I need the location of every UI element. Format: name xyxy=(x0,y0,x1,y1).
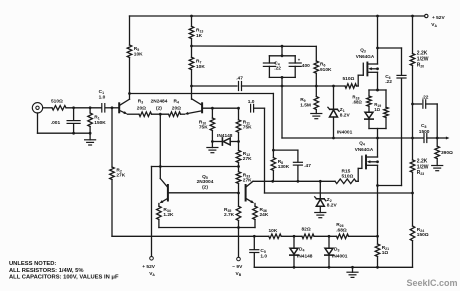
wire R10 top lead xyxy=(211,108,213,118)
junction Q5 bases xyxy=(237,192,240,195)
wire Z1 to bias line xyxy=(333,117,335,138)
connector input jack xyxy=(32,103,42,113)
junction C4 block to bus xyxy=(281,85,284,88)
terminal -9V VB xyxy=(237,257,241,261)
wire R24 to bottom rail xyxy=(412,241,414,268)
svg-text:− 9V: − 9V xyxy=(232,264,243,270)
label R19 1 ohm xyxy=(374,102,381,112)
wire emitter return rail xyxy=(159,227,255,229)
junction -9V drop xyxy=(237,226,240,229)
junction .22 out xyxy=(411,103,414,106)
wire C6 branch top xyxy=(378,47,402,49)
label R34 1.2K xyxy=(163,207,174,218)
label Q4 xyxy=(359,141,365,147)
label R1 150K xyxy=(94,115,106,126)
junction R1 xyxy=(89,106,92,109)
wire C4 block top xyxy=(269,55,295,57)
wire C1 to Q1 base xyxy=(105,107,118,109)
wire feedback riser xyxy=(264,108,266,193)
diode D3 xyxy=(325,248,333,255)
wire feedback line xyxy=(265,192,413,194)
wire R15 to gate riser xyxy=(356,180,358,182)
wire Q5a collector xyxy=(159,167,161,179)
resistor 510 ohm input xyxy=(52,106,66,111)
junction .47 bottom xyxy=(297,180,300,183)
wire 390 to ground xyxy=(436,159,438,166)
wire R7 top lead xyxy=(191,46,193,57)
wire R12 top lead xyxy=(238,142,240,151)
terminal +52V VA bottom xyxy=(150,257,154,261)
svg-text:.001: .001 xyxy=(51,120,61,126)
junction Z1 top xyxy=(332,85,335,88)
wire D3 bottom lead xyxy=(328,255,330,267)
label 510 input xyxy=(51,98,63,104)
junction D4 top xyxy=(293,235,296,238)
label .22 output xyxy=(422,94,429,100)
label VA bottom xyxy=(149,271,155,277)
svg-text:ALL RESISTORS: 1/4W, 5%: ALL RESISTORS: 1/4W, 5% xyxy=(9,268,84,274)
label R23 2.2K xyxy=(417,159,429,177)
resistor R20 xyxy=(410,54,415,66)
wire Q2 base xyxy=(203,107,239,109)
svg-text:75K: 75K xyxy=(243,125,252,131)
wire R21 bottom lead xyxy=(377,257,379,268)
junction .001 ground xyxy=(72,132,75,135)
svg-text:400: 400 xyxy=(302,63,310,69)
wire .001 bottom lead xyxy=(73,124,75,134)
label 510 ohm gate xyxy=(343,76,355,82)
junction C6 branch xyxy=(376,47,379,50)
label R24 150 xyxy=(417,227,429,238)
wire R4 to Q2 emitter xyxy=(181,113,185,115)
wire R11 bottom lead xyxy=(238,132,240,141)
junction output node xyxy=(436,137,439,140)
svg-text:.47: .47 xyxy=(304,163,311,169)
label IN4148 D4 xyxy=(297,253,313,259)
label R6 910K xyxy=(320,62,332,74)
wire C4 lower lead xyxy=(268,66,270,77)
resistor R34 xyxy=(157,206,162,219)
label R5 10K xyxy=(134,46,143,58)
wire -9V drop xyxy=(238,228,240,258)
label 2N3004 xyxy=(197,179,214,185)
resistor R2 xyxy=(110,167,115,180)
svg-text:510Ω: 510Ω xyxy=(51,98,63,104)
wire C6 bottom lead xyxy=(401,78,403,185)
wire R6 top lead xyxy=(315,46,317,61)
label 390 ohm xyxy=(441,150,453,156)
label C6 .22 xyxy=(385,74,392,85)
label Z1 8.2V xyxy=(340,107,351,119)
wire R35 bottom lead xyxy=(238,221,240,228)
wire Q5 collector line xyxy=(253,180,335,182)
resistor R10 xyxy=(210,118,215,131)
svg-text:.22: .22 xyxy=(385,79,392,85)
resistor R18 xyxy=(367,96,372,106)
transistor Q2 2N2484 xyxy=(185,86,202,115)
junction R8 top xyxy=(272,149,275,152)
capacitor C5 xyxy=(250,250,259,253)
svg-text:510Ω: 510Ω xyxy=(342,173,354,179)
wire Z2 to ground xyxy=(319,206,321,212)
label (2) Q5 xyxy=(202,185,208,191)
wire C4 upper lead xyxy=(268,56,270,63)
capacitor .47 top xyxy=(239,82,242,91)
wire R13 top lead xyxy=(191,16,193,26)
label Z2 8.2V xyxy=(327,197,338,209)
wire 390 top lead xyxy=(436,138,438,146)
label R4 xyxy=(174,98,179,104)
svg-text:2N3004: 2N3004 xyxy=(197,179,214,185)
resistor R4 xyxy=(169,112,181,117)
svg-text:1Ω: 1Ω xyxy=(374,107,380,112)
label +52V top xyxy=(432,15,445,21)
wire gate riser Q3 xyxy=(357,75,359,86)
wire C6 bottom branch xyxy=(378,185,402,187)
wire diode to block bottom xyxy=(368,119,370,128)
wire +52V drop xyxy=(151,167,153,257)
wire R20 top lead xyxy=(412,16,414,54)
capacitor C4 .22 xyxy=(263,63,275,66)
svg-text:.68Ω: .68Ω xyxy=(336,227,347,233)
wire R18 top lead xyxy=(368,90,370,96)
transistor Q1 2N2484 xyxy=(119,94,129,115)
diode IN4148 xyxy=(222,138,230,145)
junction output column C8 xyxy=(411,137,414,140)
wire R21 top lead xyxy=(377,236,379,244)
svg-text:2.7K: 2.7K xyxy=(224,212,235,218)
watermark SeekIC.com xyxy=(407,278,458,288)
label R35 2.7K xyxy=(224,207,235,218)
junction R11 top xyxy=(237,107,240,110)
junction block top xyxy=(376,89,379,92)
wire block bottom xyxy=(369,128,386,130)
label VN64GA Q4 xyxy=(355,147,374,152)
junction emitters to Q5a xyxy=(159,165,162,168)
ground bottom rail xyxy=(347,272,358,277)
wire D3 top lead xyxy=(328,236,330,248)
wire R26 to R21 xyxy=(349,235,378,237)
svg-text:910K: 910K xyxy=(320,67,332,73)
svg-text:VN64GA: VN64GA xyxy=(355,147,374,152)
node Q1 collector xyxy=(128,92,131,95)
capacitor C1 xyxy=(102,104,105,112)
wire R19 top lead xyxy=(385,90,387,107)
svg-text:IN4148: IN4148 xyxy=(217,133,233,139)
resistor 10K xyxy=(269,234,281,239)
wire Q1 emitter to R3 xyxy=(127,113,139,115)
wire to diff ground xyxy=(211,142,213,148)
transistor Q5b 2N3004 xyxy=(246,181,255,203)
junction C6 return xyxy=(376,184,379,187)
wire Q5 base line xyxy=(169,192,239,194)
svg-text:IN4148: IN4148 xyxy=(297,253,313,259)
junction C4 block top xyxy=(281,45,284,48)
label 20 ohm right xyxy=(172,105,181,111)
wire R5 top lead xyxy=(129,16,131,45)
wire R18 to diode xyxy=(368,106,370,112)
label R33 27K xyxy=(243,173,252,184)
wire jack to 510 xyxy=(43,107,52,109)
svg-text:SeekIC.com: SeekIC.com xyxy=(407,278,458,288)
ground output xyxy=(432,166,443,171)
junction rail Q3 drain xyxy=(376,15,379,18)
resistor R9 xyxy=(314,97,319,110)
wire R9 top lead xyxy=(315,86,317,97)
wire Z1 top lead xyxy=(333,86,335,109)
node R13 R7 xyxy=(190,45,193,48)
output arrow xyxy=(437,137,449,140)
svg-text:1Ω: 1Ω xyxy=(382,250,389,256)
wire bias rail left xyxy=(112,235,269,237)
wire to gate bar Q3 xyxy=(358,74,363,76)
junction .001 cap xyxy=(72,106,75,109)
label VN64GA Q3 xyxy=(356,54,375,59)
junction Z2 top xyxy=(319,180,322,183)
label R8 130K xyxy=(278,159,290,170)
wire R34 bottom lead xyxy=(158,220,160,228)
capacitor 400uF xyxy=(289,63,301,66)
svg-text:1.0: 1.0 xyxy=(248,99,255,105)
wire R9 to ground xyxy=(315,110,317,114)
junction R10 top xyxy=(211,107,214,110)
capacitor .001 xyxy=(67,121,80,124)
label C5 1.0 xyxy=(260,248,267,259)
label 10K xyxy=(269,228,278,234)
wire Q4 source down xyxy=(377,165,379,236)
svg-text:+ 52V: + 52V xyxy=(432,15,445,21)
wire R8 top lead xyxy=(272,150,274,158)
svg-text:1.5M: 1.5M xyxy=(300,103,311,109)
label 20 ohm left xyxy=(137,105,146,111)
resistor R5 xyxy=(127,45,132,58)
wire IN4148 to R11 xyxy=(230,141,238,143)
svg-text:2N2484: 2N2484 xyxy=(151,98,168,104)
wire R10 bottom lead xyxy=(211,131,213,142)
wire .001 top lead xyxy=(73,108,75,121)
svg-text:1.0: 1.0 xyxy=(260,253,267,259)
transistor Q4 VN64GA xyxy=(362,156,378,169)
resistor 82 ohm xyxy=(302,234,314,239)
ground R9 xyxy=(311,114,322,119)
wire 510 to C1 xyxy=(66,107,101,109)
svg-text:IN4001: IN4001 xyxy=(332,253,348,259)
svg-text:.22: .22 xyxy=(274,65,281,71)
wire current source rail xyxy=(152,166,239,168)
wire Q5b emitter to R36 xyxy=(254,204,256,207)
svg-text:UNLESS NOTED:: UNLESS NOTED: xyxy=(9,261,56,267)
svg-text:(2): (2) xyxy=(156,105,162,111)
wire C5 bottom lead xyxy=(253,253,255,267)
label 2N2484 xyxy=(151,98,168,104)
resistor R26 .68 xyxy=(337,234,349,239)
svg-text:.22: .22 xyxy=(422,94,429,100)
wire 400uF upper lead xyxy=(294,56,296,63)
capacitor .47 mid xyxy=(293,162,302,165)
svg-text:8.2V: 8.2V xyxy=(340,113,351,119)
wire C4 block bottom xyxy=(269,76,295,78)
label +52V bottom xyxy=(142,264,155,270)
wire .47 mid bottom lead xyxy=(297,165,299,181)
transistor Q3 VN64GA xyxy=(363,63,377,76)
svg-text:150Ω: 150Ω xyxy=(417,232,429,238)
node diff emitters xyxy=(159,113,162,116)
wire block bottom tap xyxy=(377,129,379,139)
resistor 390 ohm xyxy=(435,146,440,158)
svg-text:1.0: 1.0 xyxy=(99,94,106,100)
wire R11 top lead xyxy=(238,108,240,120)
svg-text:1K: 1K xyxy=(196,33,203,39)
label 82 ohm xyxy=(302,227,311,233)
svg-text:20Ω: 20Ω xyxy=(172,105,181,111)
wire R33 top lead xyxy=(238,167,240,172)
label D3 xyxy=(334,247,339,253)
label 400 xyxy=(302,63,310,69)
svg-text:130K: 130K xyxy=(278,164,290,170)
wire diff emitters down xyxy=(159,114,161,166)
resistor R19 xyxy=(384,107,389,117)
label C8 xyxy=(421,123,426,129)
wire R2 top lead xyxy=(111,108,113,167)
label R15 510 xyxy=(342,168,354,179)
label R11 75K xyxy=(243,120,252,131)
wire node to R6 xyxy=(192,45,317,47)
wire Q4 gate riser xyxy=(357,168,359,181)
resistor R11 xyxy=(236,120,241,133)
resistor R15 xyxy=(335,179,356,184)
wire C4 block bottom tap xyxy=(281,77,283,86)
svg-text:ALL CAPACITORS: 100V, VALUES: ALL CAPACITORS: 100V, VALUES IN μF xyxy=(9,274,119,280)
svg-text:8.2V: 8.2V xyxy=(327,202,338,208)
svg-text:IN4001: IN4001 xyxy=(337,130,353,136)
resistor 510 ohm gate Q3 xyxy=(345,84,357,89)
resistor R21 xyxy=(375,244,380,257)
wire 510 to gate riser xyxy=(357,85,359,87)
wire to IN4148 xyxy=(212,141,221,143)
wire C8 node to R23 xyxy=(412,138,414,160)
node R7 bottom xyxy=(190,85,193,88)
svg-text:VN64GA: VN64GA xyxy=(356,54,375,59)
ground diff pair xyxy=(207,148,218,153)
wire to .22 out xyxy=(413,103,422,105)
label 1500 xyxy=(419,129,430,135)
junction bottom ground xyxy=(351,266,354,269)
resistor R8 xyxy=(271,158,276,171)
label IN4001 xyxy=(337,130,353,136)
label R7 10K xyxy=(196,59,205,71)
wire block top xyxy=(369,89,386,91)
wire R23 to feedback node xyxy=(412,172,414,193)
label R13 1K xyxy=(196,28,203,40)
wire +52V top rail xyxy=(130,15,425,17)
junction D3 top xyxy=(328,235,331,238)
wire R1 top lead xyxy=(89,108,91,113)
resistor R35 xyxy=(236,206,241,220)
label .001 xyxy=(51,120,61,126)
wire C5 top lead xyxy=(253,236,255,249)
wire Q1 collector to R8 column xyxy=(130,93,274,95)
wire Q3 source xyxy=(377,72,379,90)
wire 10K to 82 xyxy=(281,235,302,237)
wire .22 down to output xyxy=(436,104,438,138)
zener Z1 xyxy=(328,107,339,117)
wire C6 top lead xyxy=(401,48,403,75)
label .47 mid xyxy=(304,163,311,169)
wire ground bus input xyxy=(38,132,91,134)
junction rail R13 xyxy=(190,15,193,18)
resistor R7 xyxy=(189,57,194,69)
resistor R13 xyxy=(189,26,194,38)
wire 400uF lower lead xyxy=(294,66,296,77)
label IN4148 xyxy=(217,133,233,139)
wire to C8 xyxy=(413,137,424,139)
svg-text:.47: .47 xyxy=(236,75,243,81)
label R26 .68 xyxy=(336,222,347,233)
wire Q5a emitter to R34 xyxy=(158,204,160,207)
junction D3 bottom xyxy=(328,266,331,269)
junction Z1 chain bias line xyxy=(332,137,335,140)
junction R21 bottom xyxy=(376,266,379,269)
label VA top xyxy=(431,22,437,28)
wire R3 to R4 xyxy=(152,113,169,115)
label (2) diff xyxy=(156,105,162,111)
junction R12 R33 xyxy=(237,165,240,168)
svg-text:.68Ω: .68Ω xyxy=(352,100,362,105)
junction R8 bottom xyxy=(271,180,274,183)
junction R6 R9 xyxy=(315,85,318,88)
svg-text:390Ω: 390Ω xyxy=(441,150,453,156)
junction Q4 drain node xyxy=(376,137,379,140)
junction rail R20 xyxy=(411,15,414,18)
wire R35 top lead xyxy=(238,193,240,206)
svg-text:20Ω: 20Ω xyxy=(137,105,146,111)
wire down to R8 xyxy=(272,94,274,151)
wire R2 bottom lead xyxy=(111,180,113,237)
svg-text:510Ω: 510Ω xyxy=(343,76,355,82)
svg-text:24K: 24K xyxy=(260,212,269,218)
wire bottom rail xyxy=(254,266,412,268)
svg-text:150K: 150K xyxy=(94,120,106,126)
wire R8 bottom lead xyxy=(272,170,274,181)
diode D4 xyxy=(290,248,298,255)
label C1 1.0 xyxy=(99,89,106,100)
junction R2 base xyxy=(111,106,114,109)
resistor R24 xyxy=(410,226,415,241)
wire .47 to 510 ohm xyxy=(242,85,346,87)
junction C5 xyxy=(253,235,256,238)
junction feedback output column xyxy=(411,192,414,195)
resistor R36 xyxy=(253,206,258,219)
terminal +52V VA top right xyxy=(425,14,428,17)
junction R1 ground xyxy=(89,132,92,135)
ground Z2 xyxy=(315,213,326,218)
svg-text:10K: 10K xyxy=(269,228,278,234)
svg-text:27K: 27K xyxy=(116,173,125,179)
wire Z2 top lead xyxy=(319,181,321,199)
wire C4 node down xyxy=(281,86,283,138)
wire to .47 mid xyxy=(273,149,298,151)
label + polarity xyxy=(298,57,301,62)
svg-text:10K: 10K xyxy=(196,64,205,70)
capacitor 1.0 feedback xyxy=(251,104,254,112)
wire 82 to R26 xyxy=(314,235,337,237)
ground input xyxy=(85,140,96,145)
label notes xyxy=(9,261,119,280)
wire R13 to node xyxy=(191,39,193,46)
wire bias line to output cap xyxy=(282,137,413,139)
label IN4001 D3 xyxy=(332,253,348,259)
label Q3 xyxy=(360,48,366,54)
